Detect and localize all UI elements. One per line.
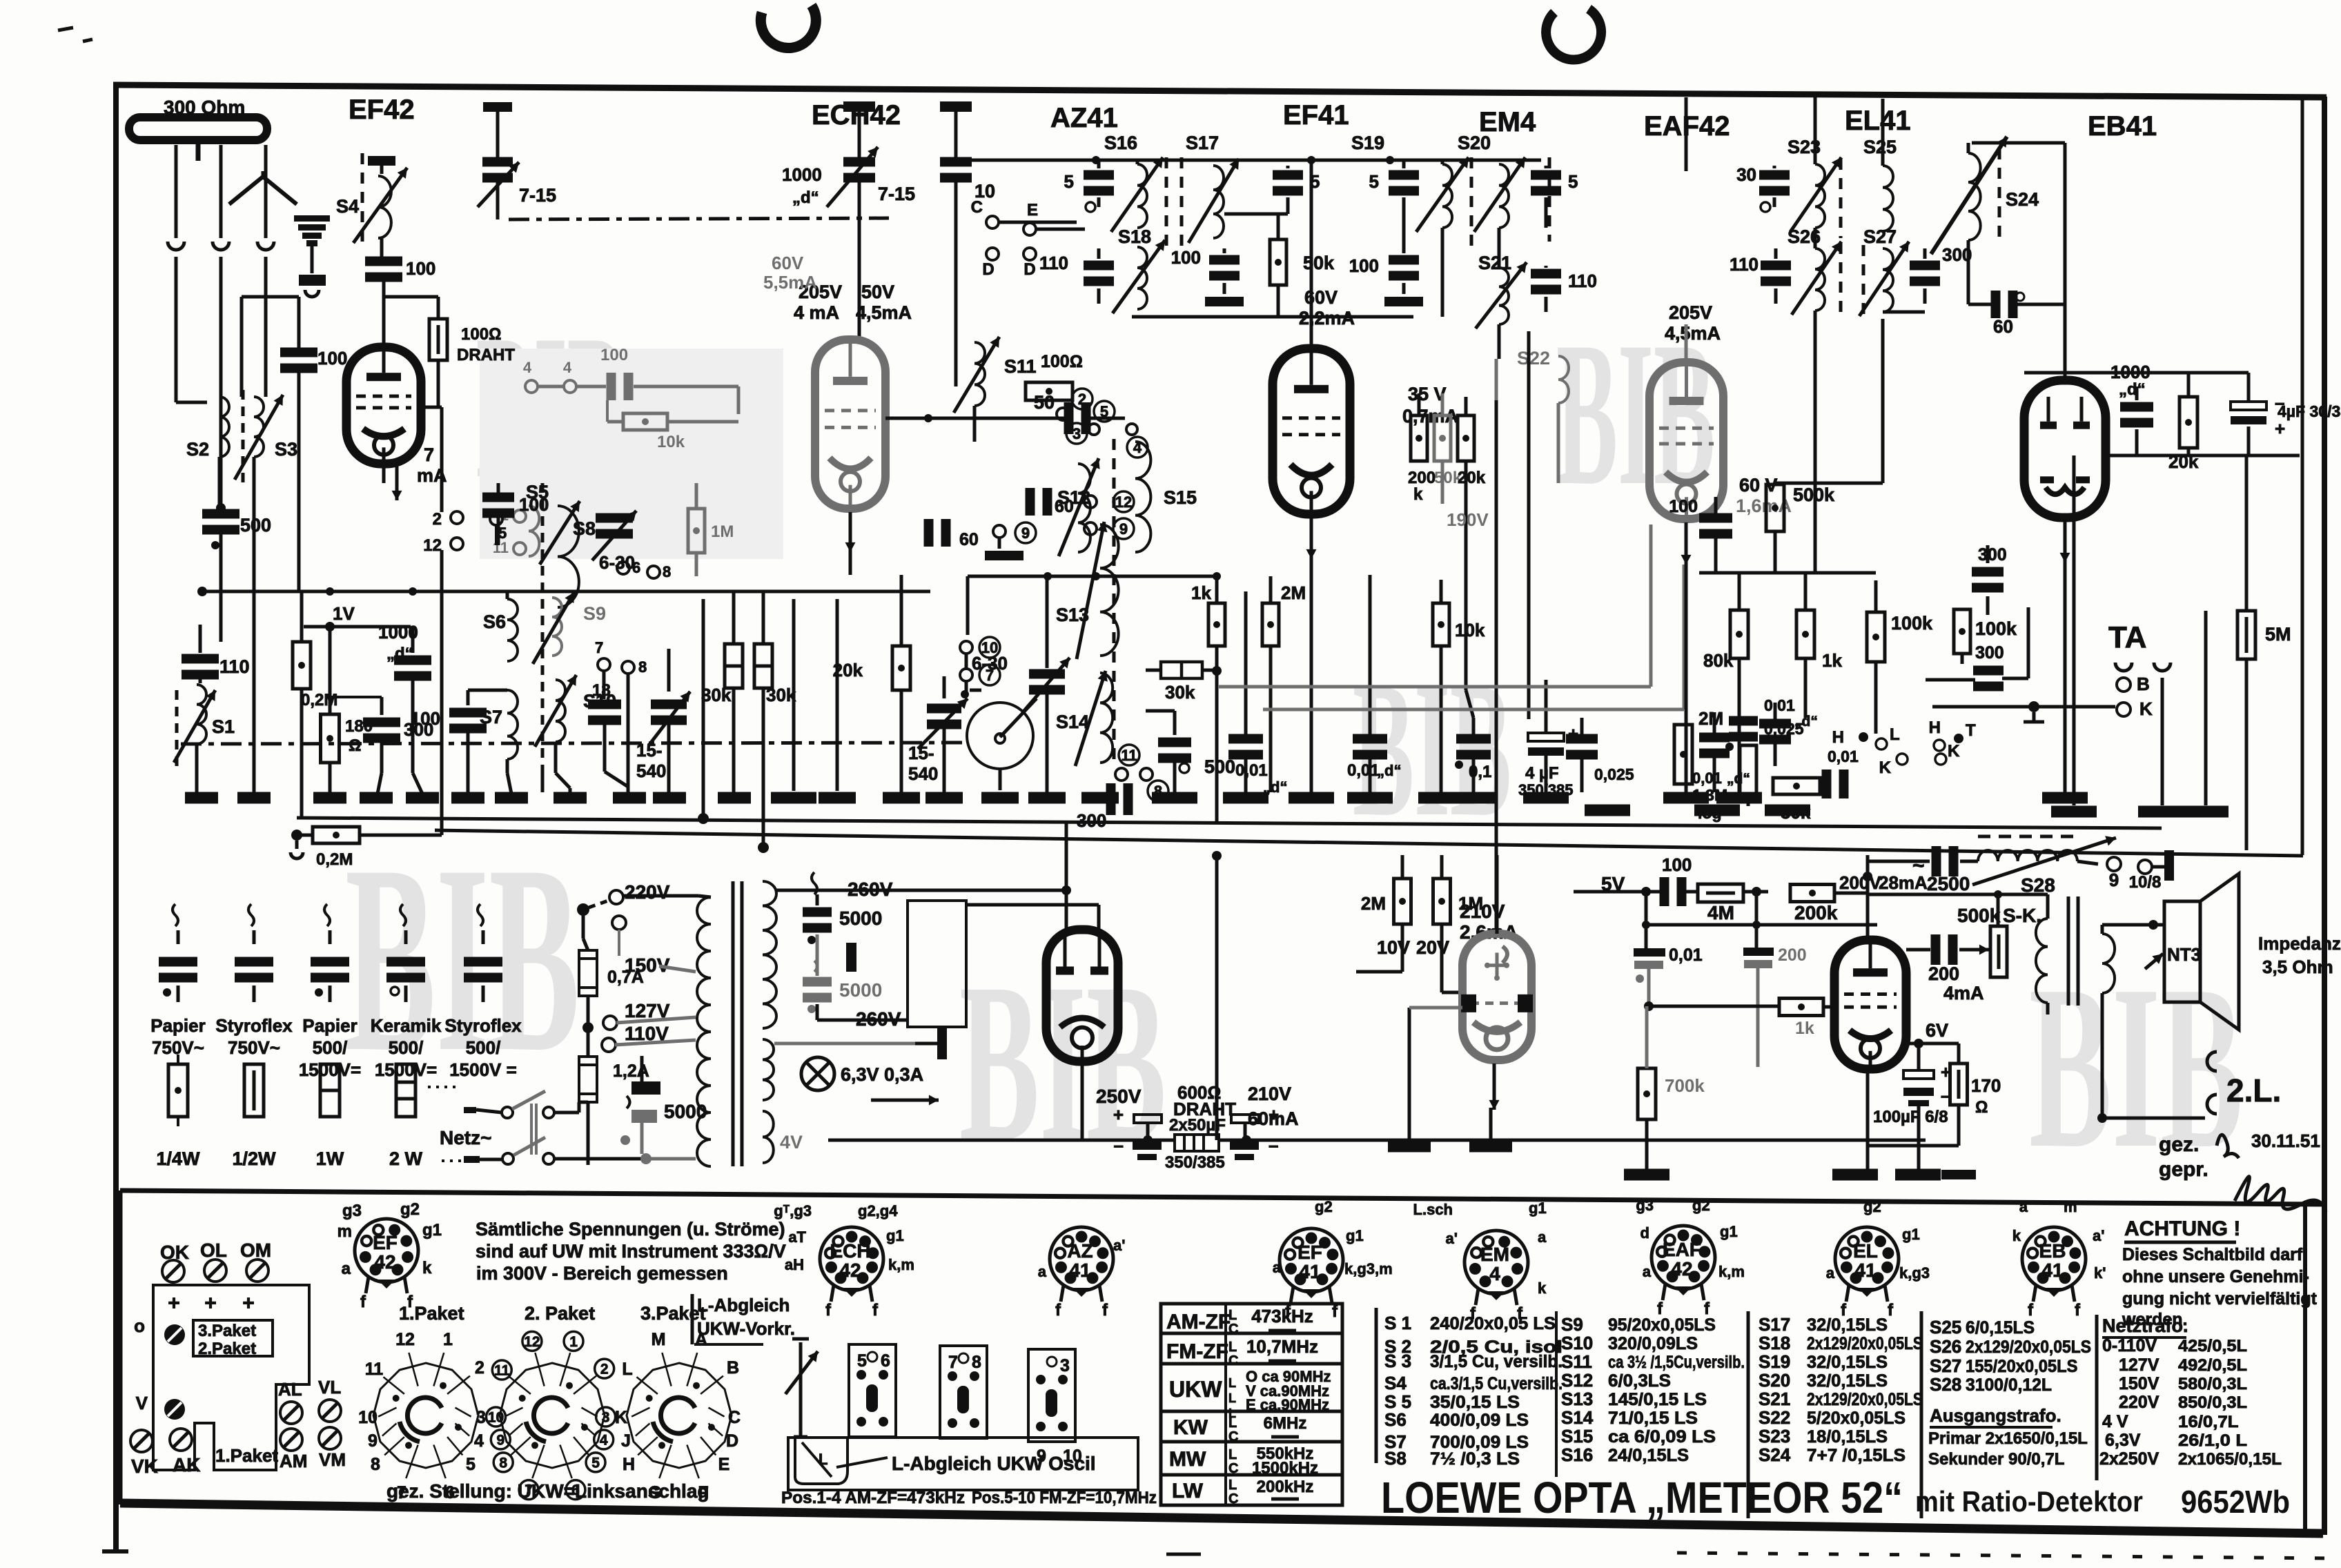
svg-text:k: k <box>1538 1280 1547 1297</box>
svg-text:S13: S13 <box>1561 1389 1593 1409</box>
svg-text:8: 8 <box>663 563 671 580</box>
svg-text:g1: g1 <box>886 1227 904 1244</box>
svg-text:Styroflex: Styroflex <box>215 1015 293 1036</box>
svg-text:7-15: 7-15 <box>878 184 915 204</box>
svg-text:41: 41 <box>1854 1260 1876 1281</box>
svg-text:4: 4 <box>523 359 532 376</box>
svg-text:300: 300 <box>1077 810 1106 831</box>
svg-text:2M: 2M <box>1281 582 1306 603</box>
svg-text:g1: g1 <box>1720 1223 1738 1240</box>
svg-text:7: 7 <box>948 1353 958 1372</box>
svg-text:+: + <box>168 1292 180 1315</box>
svg-text:k,m: k,m <box>1718 1263 1745 1280</box>
svg-text:C: C <box>1228 1429 1238 1444</box>
svg-text:EF: EF <box>1297 1242 1322 1263</box>
svg-text:a': a' <box>1113 1237 1125 1254</box>
svg-text:15-: 15- <box>636 740 663 761</box>
svg-text:1V: 1V <box>333 603 355 624</box>
svg-text:K: K <box>1879 758 1892 777</box>
svg-text:S9: S9 <box>1561 1314 1583 1335</box>
svg-text:J: J <box>621 1431 631 1451</box>
svg-text:S15: S15 <box>1164 487 1197 508</box>
svg-text:2x1065/0,15L: 2x1065/0,15L <box>2178 1450 2282 1469</box>
svg-text:a': a' <box>1446 1230 1458 1247</box>
svg-text:g1: g1 <box>422 1221 442 1239</box>
svg-text:S19: S19 <box>1351 133 1384 153</box>
svg-text:2x129/20x0,05LS: 2x129/20x0,05LS <box>1807 1390 1923 1409</box>
svg-text:6: 6 <box>632 559 640 576</box>
svg-text:24/0,15LS: 24/0,15LS <box>1608 1446 1689 1465</box>
svg-text:Sekunder 90/0,7L: Sekunder 90/0,7L <box>1928 1450 2064 1469</box>
svg-text:ca 6/0,09 LS: ca 6/0,09 LS <box>1608 1427 1716 1447</box>
svg-text:L: L <box>1228 1308 1237 1323</box>
svg-text:200: 200 <box>1928 963 1959 984</box>
svg-text:gez.: gez. <box>2159 1133 2199 1156</box>
svg-text:100: 100 <box>1171 247 1201 268</box>
svg-text:LOEWE OPTA „METEOR 52“: LOEWE OPTA „METEOR 52“ <box>1381 1473 1903 1522</box>
svg-text:500/: 500/ <box>313 1037 348 1058</box>
svg-text:5: 5 <box>498 525 507 542</box>
svg-text:H: H <box>623 1455 635 1474</box>
svg-text:5: 5 <box>857 1351 867 1371</box>
svg-text:S16: S16 <box>1104 133 1137 153</box>
svg-text:a: a <box>1538 1228 1547 1246</box>
svg-text:f: f <box>825 1301 832 1320</box>
svg-text:+: + <box>1269 1104 1279 1125</box>
svg-text:200V: 200V <box>1839 872 1881 893</box>
svg-text:4: 4 <box>563 359 572 376</box>
svg-text:4,5mA: 4,5mA <box>1665 323 1721 344</box>
svg-text:S20: S20 <box>1458 133 1491 153</box>
svg-text:„d“: „d“ <box>1377 762 1401 779</box>
svg-text:300: 300 <box>1978 545 2007 565</box>
svg-text:a': a' <box>2093 1227 2104 1244</box>
svg-text:L: L <box>1228 1478 1237 1493</box>
svg-text:S8: S8 <box>1384 1448 1407 1469</box>
svg-text:4V: 4V <box>780 1132 803 1153</box>
svg-text:0,01: 0,01 <box>1692 770 1722 787</box>
svg-text:4: 4 <box>600 1432 608 1448</box>
svg-text:1.Paket: 1.Paket <box>399 1303 464 1324</box>
svg-text:500k: 500k <box>1957 905 2001 926</box>
svg-text:3100/0,12L: 3100/0,12L <box>1966 1375 2052 1395</box>
svg-text:S9: S9 <box>583 603 606 624</box>
svg-text:f: f <box>360 1293 366 1311</box>
svg-text:H: H <box>1832 728 1844 747</box>
svg-text:g2: g2 <box>1692 1197 1710 1214</box>
svg-text:35 V: 35 V <box>1408 384 1447 404</box>
svg-text:9: 9 <box>1119 520 1128 538</box>
svg-text:7½ /0,3 LS: 7½ /0,3 LS <box>1430 1449 1520 1469</box>
svg-text:1M: 1M <box>1458 893 1483 914</box>
svg-text:LW: LW <box>1172 1480 1204 1502</box>
svg-text:5: 5 <box>1064 171 1074 192</box>
svg-text:60V: 60V <box>1304 287 1338 308</box>
svg-text:D: D <box>726 1431 738 1451</box>
svg-text:30.11.51: 30.11.51 <box>2251 1130 2320 1151</box>
svg-text:42: 42 <box>1671 1258 1692 1280</box>
svg-text:10/8: 10/8 <box>2129 873 2162 892</box>
svg-text:12: 12 <box>423 536 442 555</box>
svg-text:50: 50 <box>1034 392 1055 413</box>
svg-text:L-Abgleich: L-Abgleich <box>697 1295 790 1315</box>
svg-text:im 300V - Bereich gemessen: im 300V - Bereich gemessen <box>476 1263 728 1284</box>
svg-text:Ausgangstrafo.: Ausgangstrafo. <box>1930 1405 2061 1426</box>
svg-text:5000: 5000 <box>664 1101 707 1122</box>
svg-text:K: K <box>615 1408 627 1427</box>
svg-text:B: B <box>2137 674 2150 694</box>
svg-text:3/1,5 Cu, versilb.: 3/1,5 Cu, versilb. <box>1430 1352 1563 1371</box>
svg-text:L: L <box>1228 1340 1237 1355</box>
svg-text:S27: S27 <box>1863 226 1897 247</box>
svg-text:S1: S1 <box>212 716 235 737</box>
svg-text:Pos.1-4 AM-ZF=473kHz: Pos.1-4 AM-ZF=473kHz <box>781 1489 965 1507</box>
svg-text:100k: 100k <box>1891 613 1933 634</box>
svg-text:540: 540 <box>908 763 938 784</box>
svg-text:425/0,5L: 425/0,5L <box>2178 1337 2247 1355</box>
svg-text:S4: S4 <box>336 196 359 217</box>
svg-text:gᵀ,g3: gᵀ,g3 <box>774 1202 812 1219</box>
svg-text:L: L <box>1890 725 1900 744</box>
svg-text:200: 200 <box>1778 945 1807 965</box>
svg-text:C: C <box>1228 1353 1238 1369</box>
svg-text:6MHz: 6MHz <box>1264 1414 1307 1433</box>
svg-text:6/0,3LS: 6/0,3LS <box>1608 1371 1671 1391</box>
svg-text:H: H <box>1929 718 1941 737</box>
svg-text:150V: 150V <box>2119 1374 2159 1393</box>
svg-text:+: + <box>1113 1104 1124 1125</box>
svg-text:1: 1 <box>443 1330 453 1349</box>
svg-text:a: a <box>1826 1264 1835 1282</box>
svg-text:8: 8 <box>499 1455 507 1471</box>
svg-text:3: 3 <box>1072 425 1081 442</box>
svg-text:EF: EF <box>373 1232 398 1253</box>
svg-text:3: 3 <box>476 1408 486 1427</box>
svg-text:OM: OM <box>240 1239 271 1261</box>
svg-text:1k: 1k <box>1822 650 1842 671</box>
svg-text:ca 3½ /1,5Cu,versilb.: ca 3½ /1,5Cu,versilb. <box>1608 1353 1745 1372</box>
svg-text:E: E <box>1027 201 1038 219</box>
svg-text:492/0,5L: 492/0,5L <box>2178 1356 2247 1375</box>
svg-text:BIB: BIB <box>2029 937 2243 1197</box>
svg-text:Ω: Ω <box>349 736 361 755</box>
svg-text:S10: S10 <box>1561 1333 1593 1353</box>
svg-text:9: 9 <box>1037 1447 1046 1466</box>
svg-text:1.Paket: 1.Paket <box>215 1445 278 1466</box>
svg-text:473kHz: 473kHz <box>1251 1306 1313 1326</box>
svg-text:41: 41 <box>1299 1261 1320 1282</box>
svg-text:Papier: Papier <box>302 1015 357 1036</box>
svg-text:8: 8 <box>371 1455 380 1474</box>
svg-text:7: 7 <box>986 667 994 684</box>
svg-text:145/0,15 LS: 145/0,15 LS <box>1608 1390 1707 1409</box>
svg-text:E ca.90MHz: E ca.90MHz <box>1246 1396 1329 1413</box>
svg-text:42: 42 <box>374 1251 395 1273</box>
svg-text:1W: 1W <box>316 1148 344 1169</box>
svg-text:700k: 700k <box>1665 1075 1705 1096</box>
svg-text:f: f <box>1055 1301 1061 1320</box>
svg-text:k: k <box>1413 485 1423 504</box>
svg-text:V: V <box>136 1393 148 1413</box>
svg-text:d: d <box>1640 1224 1649 1242</box>
svg-text:10: 10 <box>1063 1447 1082 1466</box>
svg-text:60: 60 <box>1993 316 2013 337</box>
svg-text:S18: S18 <box>1759 1333 1790 1353</box>
svg-text:C: C <box>1228 1461 1238 1476</box>
svg-text:Papier: Papier <box>150 1015 206 1036</box>
svg-text:500: 500 <box>240 515 271 536</box>
svg-text:10k: 10k <box>657 433 685 451</box>
svg-text:300: 300 <box>1975 643 2004 663</box>
svg-text:EL: EL <box>1853 1240 1878 1262</box>
svg-text:240/20x0,05 LS: 240/20x0,05 LS <box>1430 1314 1556 1333</box>
svg-text:30: 30 <box>1736 164 1756 185</box>
svg-text:KW: KW <box>1173 1416 1208 1439</box>
svg-text:EL41: EL41 <box>1845 106 1911 136</box>
svg-text:m: m <box>2064 1198 2077 1215</box>
svg-text:2x129/20x0,05LS: 2x129/20x0,05LS <box>1807 1334 1923 1353</box>
svg-text:9652Wb: 9652Wb <box>2181 1484 2290 1520</box>
svg-text:S22: S22 <box>1517 348 1550 369</box>
svg-text:2M: 2M <box>1698 708 1723 729</box>
svg-text:1k: 1k <box>1191 582 1211 603</box>
svg-text:4µF 30/35: 4µF 30/35 <box>2278 402 2341 420</box>
svg-text:60: 60 <box>1055 497 1074 516</box>
svg-text:S4: S4 <box>1384 1373 1407 1393</box>
svg-text:2.Paket: 2.Paket <box>198 1340 256 1358</box>
svg-text:S 1: S 1 <box>1384 1313 1411 1333</box>
svg-text:100Ω: 100Ω <box>1041 352 1083 371</box>
svg-text:Keramik: Keramik <box>371 1015 442 1036</box>
svg-text:Pos.5-10 FM-ZF=10,7MHz: Pos.5-10 FM-ZF=10,7MHz <box>972 1489 1157 1507</box>
svg-text:3: 3 <box>1060 1356 1070 1375</box>
svg-text:200: 200 <box>1408 469 1436 487</box>
svg-text:S3: S3 <box>275 439 297 460</box>
svg-text:220V: 220V <box>2119 1393 2159 1412</box>
svg-text:L: L <box>819 1451 827 1468</box>
svg-text:2. Paket: 2. Paket <box>525 1303 595 1324</box>
svg-text:200k: 200k <box>1794 902 1838 923</box>
svg-text:S26: S26 <box>1930 1336 1961 1357</box>
svg-text:0,01: 0,01 <box>1669 945 1703 965</box>
svg-text:200kHz: 200kHz <box>1257 1478 1314 1496</box>
svg-text:500/: 500/ <box>466 1037 501 1058</box>
svg-text:50k: 50k <box>1781 802 1811 823</box>
svg-text:8: 8 <box>638 658 647 676</box>
svg-text:10k: 10k <box>1455 620 1485 640</box>
svg-text:60V: 60V <box>772 253 804 273</box>
svg-text:0,01: 0,01 <box>1764 696 1795 714</box>
svg-text:EB: EB <box>2039 1240 2066 1262</box>
svg-text:16/0,7L: 16/0,7L <box>2178 1413 2239 1431</box>
svg-text:g3: g3 <box>1636 1197 1654 1214</box>
svg-text:12: 12 <box>524 1334 540 1350</box>
svg-text:M: M <box>652 1330 666 1349</box>
svg-text:ca.3/1,5 Cu,versilb.: ca.3/1,5 Cu,versilb. <box>1430 1374 1563 1393</box>
svg-text:a: a <box>342 1260 351 1278</box>
svg-text:+: + <box>242 1292 255 1315</box>
svg-text:g3: g3 <box>342 1202 362 1220</box>
svg-text:5/20x0,05LS: 5/20x0,05LS <box>1807 1409 1906 1428</box>
svg-text:190V: 190V <box>1447 509 1489 530</box>
svg-text:10: 10 <box>358 1408 378 1427</box>
svg-text:f: f <box>1888 1301 1894 1320</box>
svg-text:S24: S24 <box>1759 1444 1791 1465</box>
svg-text:EM: EM <box>1480 1244 1509 1265</box>
svg-text:D: D <box>1023 260 1035 279</box>
svg-text:8: 8 <box>972 1353 981 1372</box>
svg-text:100: 100 <box>600 346 628 364</box>
svg-text:7: 7 <box>595 639 603 656</box>
svg-text:g2: g2 <box>400 1200 420 1219</box>
svg-text:4 V: 4 V <box>2102 1412 2128 1431</box>
svg-text:a: a <box>2019 1198 2028 1215</box>
svg-text:S17: S17 <box>1759 1314 1790 1335</box>
svg-text:ohne unsere Genehmi-: ohne unsere Genehmi- <box>2122 1267 2309 1286</box>
svg-text:AM: AM <box>280 1451 307 1471</box>
svg-text:3: 3 <box>602 1410 610 1426</box>
svg-text:100Ω: 100Ω <box>461 325 501 344</box>
svg-text:5: 5 <box>1568 171 1578 192</box>
svg-text:S6: S6 <box>1384 1409 1407 1430</box>
svg-text:S22: S22 <box>1759 1407 1790 1428</box>
svg-text:L: L <box>1228 1415 1237 1431</box>
svg-text:VK: VK <box>131 1456 158 1477</box>
svg-text:–: – <box>1114 1135 1124 1155</box>
svg-text:VL: VL <box>318 1377 341 1398</box>
svg-text:850/0,3L: 850/0,3L <box>2178 1393 2247 1412</box>
svg-text:6/0,15LS: 6/0,15LS <box>1966 1318 2035 1337</box>
svg-text:S2: S2 <box>186 439 209 460</box>
svg-text:S21: S21 <box>1759 1389 1790 1409</box>
svg-text:g2: g2 <box>1863 1198 1881 1215</box>
svg-text:15-: 15- <box>908 743 934 763</box>
svg-text:11: 11 <box>494 1363 510 1379</box>
svg-text:DRAHT: DRAHT <box>457 346 515 364</box>
svg-text:T: T <box>1966 721 1976 740</box>
svg-text:30k: 30k <box>701 685 732 705</box>
svg-text:Netztrafo.: Netztrafo. <box>2102 1315 2188 1336</box>
svg-text:110: 110 <box>1730 254 1759 275</box>
svg-text:C: C <box>971 198 983 217</box>
svg-text:E: E <box>718 1455 730 1474</box>
svg-text:1/4W: 1/4W <box>156 1148 200 1169</box>
svg-text:aH: aH <box>785 1256 804 1273</box>
svg-text:„d“: „d“ <box>792 188 819 207</box>
svg-text:L: L <box>622 1360 632 1379</box>
svg-text:S6: S6 <box>483 611 506 632</box>
svg-text:9: 9 <box>496 1432 505 1448</box>
svg-text:S12: S12 <box>1561 1370 1593 1391</box>
svg-text:f: f <box>872 1301 879 1320</box>
svg-text:11: 11 <box>365 1360 384 1379</box>
svg-text:750V~: 750V~ <box>228 1037 280 1058</box>
svg-text:2: 2 <box>433 510 442 529</box>
svg-text:AZ: AZ <box>1067 1240 1093 1262</box>
svg-text:Ω: Ω <box>1975 1098 1988 1117</box>
svg-text:6,3V 0,3A: 6,3V 0,3A <box>841 1064 923 1085</box>
svg-text:S-K.: S-K. <box>2003 905 2041 926</box>
svg-text:S18: S18 <box>1118 226 1151 247</box>
svg-text:540: 540 <box>636 761 666 781</box>
svg-text:a: a <box>1038 1263 1047 1280</box>
svg-text:0,2M: 0,2M <box>316 850 353 869</box>
svg-text:5,5mA: 5,5mA <box>763 272 817 293</box>
svg-text:Primar 2x1650/0,15L: Primar 2x1650/0,15L <box>1928 1429 2088 1448</box>
svg-text:35/0,15 LS: 35/0,15 LS <box>1430 1393 1520 1412</box>
svg-text:5M: 5M <box>2265 624 2291 645</box>
svg-text:OL: OL <box>200 1239 227 1261</box>
svg-text:g1: g1 <box>1346 1227 1364 1244</box>
svg-text:a: a <box>1273 1259 1282 1276</box>
svg-text:220V: 220V <box>625 881 670 903</box>
svg-text:S23: S23 <box>1759 1426 1790 1447</box>
svg-text:Netz~: Netz~ <box>440 1127 491 1148</box>
svg-text:B: B <box>727 1358 739 1378</box>
svg-text:0-110V: 0-110V <box>2102 1336 2157 1355</box>
svg-text:42: 42 <box>839 1260 861 1281</box>
svg-text:5000: 5000 <box>839 979 882 1001</box>
svg-text:0,01: 0,01 <box>1828 747 1859 765</box>
svg-text:10: 10 <box>488 1410 504 1426</box>
svg-text:f: f <box>2075 1301 2081 1320</box>
svg-text:7+7 /0,15LS: 7+7 /0,15LS <box>1807 1446 1906 1465</box>
svg-text:18/0,15LS: 18/0,15LS <box>1807 1427 1888 1447</box>
svg-text:1500V =: 1500V = <box>449 1059 517 1080</box>
svg-text:EF41: EF41 <box>1283 100 1349 130</box>
svg-text:3.Paket: 3.Paket <box>640 1303 706 1324</box>
svg-text:S14: S14 <box>1561 1407 1594 1428</box>
svg-text:S15: S15 <box>1561 1426 1593 1447</box>
svg-text:k,g3: k,g3 <box>1899 1264 1930 1282</box>
svg-text:50V: 50V <box>861 282 894 302</box>
svg-text:10V: 10V <box>1377 937 1410 958</box>
svg-text:5: 5 <box>1310 171 1320 192</box>
svg-text:S14: S14 <box>1056 712 1089 732</box>
svg-text:S7: S7 <box>480 707 502 727</box>
svg-text:5: 5 <box>1369 171 1379 192</box>
svg-text:3.Paket: 3.Paket <box>198 1322 256 1340</box>
svg-text:g2,g4: g2,g4 <box>858 1202 898 1219</box>
svg-text:1000: 1000 <box>782 164 822 185</box>
svg-text:L.sch: L.sch <box>1413 1201 1453 1218</box>
svg-text:+: + <box>2275 418 2285 439</box>
svg-text:a: a <box>1643 1263 1652 1280</box>
svg-text:100: 100 <box>411 708 440 729</box>
svg-text:210V: 210V <box>1248 1084 1291 1104</box>
svg-text:500k: 500k <box>1793 484 1835 505</box>
svg-text:6,3V: 6,3V <box>2105 1431 2141 1450</box>
svg-text:100k: 100k <box>1975 618 2017 639</box>
svg-text:S17: S17 <box>1186 133 1219 153</box>
svg-text:18: 18 <box>592 681 611 700</box>
svg-text:4 mA: 4 mA <box>794 302 839 323</box>
svg-text:AL: AL <box>278 1379 302 1400</box>
svg-text:S20: S20 <box>1759 1370 1790 1391</box>
svg-text:C: C <box>1228 1322 1238 1337</box>
svg-text:71/0,15 LS: 71/0,15 LS <box>1608 1409 1698 1428</box>
svg-text:4,5mA: 4,5mA <box>856 302 912 323</box>
svg-text:1/2W: 1/2W <box>232 1148 276 1169</box>
svg-text:95/20x0,05LS: 95/20x0,05LS <box>1608 1315 1716 1335</box>
svg-text:Impedanz =: Impedanz = <box>2258 933 2341 954</box>
svg-text:2: 2 <box>1078 391 1086 408</box>
svg-text:80k: 80k <box>1703 650 1734 671</box>
svg-text:2x129/20x0,05LS: 2x129/20x0,05LS <box>1966 1337 2091 1357</box>
svg-text:2x250V: 2x250V <box>2099 1449 2159 1469</box>
svg-text:L: L <box>1228 1447 1237 1462</box>
svg-text:f: f <box>1102 1301 1108 1320</box>
